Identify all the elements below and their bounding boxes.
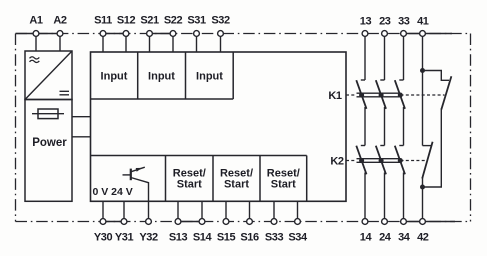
contact K2 no2 tick (380, 145, 384, 147)
svg-text:S13: S13 (169, 232, 188, 244)
wire S16 stem (249, 201, 251, 221)
wire solid top-left corner to A2 (16, 33, 61, 35)
terminal A2 (57, 31, 63, 37)
contact K1 no2 tick (380, 79, 384, 81)
K2 link dot 3 (398, 158, 403, 163)
K1 link dot 2 (379, 92, 384, 97)
terminal S16 (247, 219, 253, 225)
svg-text:Y31: Y31 (115, 232, 134, 244)
terminal 14 (362, 219, 368, 225)
transistor collector to Y32 (131, 178, 149, 222)
enclosure dash-dot border bottom (16, 221, 471, 223)
contact K1 no3 tick (399, 79, 403, 81)
terminal Y30 (100, 219, 106, 225)
terminal S22 (170, 31, 176, 37)
svg-text:Input: Input (196, 71, 223, 83)
svg-text:33: 33 (398, 15, 410, 27)
terminal S32 (218, 31, 224, 37)
power bus rung 2 (72, 136, 91, 138)
contact K2 no2 blade (376, 146, 386, 175)
wire S13 stem (177, 201, 179, 221)
terminal 42 (420, 219, 426, 225)
svg-text:24: 24 (379, 232, 392, 244)
svg-text:13: 13 (360, 15, 372, 27)
main logic box (91, 52, 347, 201)
terminal 33 (401, 31, 407, 37)
converter diagonal (25, 51, 72, 100)
svg-text:Start: Start (271, 178, 296, 190)
transistor emitter with arrow (131, 167, 145, 172)
converter DC symbol (60, 91, 70, 95)
contact K2 no1 blade (356, 146, 366, 175)
contact K1 no2 wire 23 (384, 34, 386, 81)
terminal S34 (295, 219, 301, 225)
wire Y30 stem (102, 201, 104, 221)
svg-text:0 V 24 V: 0 V 24 V (93, 186, 133, 198)
enclosure dash-dot border left (15, 34, 17, 222)
wire S22 stem (172, 34, 174, 53)
terminal 41 (420, 31, 426, 37)
terminal A1 (33, 31, 39, 37)
contact K1 no2 blade (376, 80, 386, 109)
K1 link bar (357, 93, 401, 97)
terminal S31 (194, 31, 200, 37)
svg-text:S32: S32 (211, 14, 230, 26)
wire S14 stem (201, 201, 203, 221)
wire Y31 stem (123, 201, 125, 221)
terminal S33 (271, 219, 277, 225)
terminal 23 (382, 31, 388, 37)
node junction 42 (420, 185, 425, 190)
wire solid 34-42 bottom (404, 221, 456, 223)
bottom block dividers (166, 156, 307, 202)
K1 dashed mechanical link (346, 94, 445, 96)
wire 41 stem (422, 34, 424, 71)
svg-text:S33: S33 (265, 232, 284, 244)
wire solid S13-S14 (178, 221, 202, 223)
contact K2 nc blade (422, 142, 432, 179)
terminal S13 (175, 219, 181, 225)
wire S12 stem (125, 34, 127, 53)
K1 link dot 3 (398, 92, 403, 97)
terminal S11 (100, 31, 106, 37)
wire solid S11-S12 (103, 33, 126, 35)
transistor base lead (123, 174, 131, 176)
svg-text:34: 34 (398, 232, 411, 244)
contact K2 no1 lower wire to 14 (364, 173, 366, 222)
terminal S14 (199, 219, 205, 225)
wire A1 stem (35, 34, 37, 52)
terminal 13 (362, 31, 368, 37)
terminal 34 (401, 219, 407, 225)
svg-text:A1: A1 (29, 14, 43, 26)
wire K1 nc down run (423, 109, 442, 188)
wire S31 stem (196, 34, 198, 53)
contact K1 no3 lower wire (403, 107, 405, 146)
wire K2 nc to node (422, 177, 424, 222)
contact K2 no3 tick (399, 145, 403, 147)
svg-text:Y30: Y30 (94, 232, 113, 244)
wire S32 stem (220, 34, 222, 53)
svg-text:S14: S14 (193, 232, 213, 244)
svg-text:Y32: Y32 (139, 232, 158, 244)
svg-text:41: 41 (417, 15, 429, 27)
contact K1 no2 lower wire (384, 107, 386, 146)
contact K2 no3 lower wire to 34 (403, 173, 405, 222)
wire S34 stem (297, 201, 299, 221)
converter AC symbol (30, 57, 40, 59)
svg-text:Input: Input (101, 71, 128, 83)
svg-text:K2: K2 (330, 155, 344, 167)
enclosure dash-dot border top (16, 33, 471, 35)
wire K2 nc left run (422, 71, 424, 146)
contact K2 no2 lower wire to 24 (384, 173, 386, 222)
fuse F (38, 109, 58, 119)
svg-text:S31: S31 (187, 14, 206, 26)
svg-text:Start: Start (177, 178, 202, 190)
transistor emitter arrowhead (136, 168, 142, 172)
wire solid S21-S22 (150, 33, 174, 35)
contact K2 nc hook (423, 145, 432, 147)
svg-text:23: 23 (379, 15, 391, 27)
K2 link dot 2 (379, 158, 384, 163)
svg-text:S12: S12 (117, 14, 136, 26)
terminal 24 (382, 219, 388, 225)
wire S33 stem (273, 201, 275, 221)
svg-text:Power: Power (32, 137, 67, 149)
input block dividers (91, 52, 234, 99)
contact K1 no1 tick (361, 79, 365, 81)
contact K2 no3 blade (395, 146, 405, 175)
terminal Y32 (146, 219, 152, 225)
svg-text:S16: S16 (240, 232, 259, 244)
contact K1 no1 lower wire (364, 107, 366, 146)
contact K1 nc blade (441, 76, 451, 109)
svg-text:K1: K1 (328, 90, 342, 102)
terminal S21 (147, 31, 153, 37)
svg-text:S22: S22 (164, 14, 183, 26)
contact K2 no1 tick (361, 145, 365, 147)
svg-text:A2: A2 (53, 14, 67, 26)
wire solid 33 to right of 41 (404, 33, 453, 35)
svg-text:42: 42 (417, 232, 429, 244)
contact K1 no3 blade (395, 80, 405, 109)
svg-text:Input: Input (148, 71, 175, 83)
svg-text:S15: S15 (217, 232, 236, 244)
terminal S15 (223, 219, 229, 225)
wire A2 stem (59, 34, 61, 52)
wire S15 stem (225, 201, 227, 221)
svg-text:S34: S34 (288, 232, 308, 244)
enclosure dash-dot border right (470, 34, 472, 222)
terminal Y31 (121, 219, 127, 225)
power lower box (25, 100, 72, 202)
wire solid Y30-Y31 (103, 221, 124, 223)
svg-text:14: 14 (360, 232, 373, 244)
svg-text:S21: S21 (140, 14, 159, 26)
K2 dashed mechanical link (346, 160, 427, 162)
power supply converter box (25, 51, 72, 100)
contact K1 no1 blade (356, 80, 366, 109)
terminal S12 (123, 31, 129, 37)
contact K1 no1 wire 13 (364, 34, 366, 81)
bottom blocks top edge (91, 155, 307, 157)
node junction 41 (420, 68, 425, 73)
svg-text:S11: S11 (94, 14, 112, 26)
wire jog 41 to K1 nc (423, 71, 450, 81)
wire S21 stem (149, 34, 151, 53)
K2 link dot 1 (359, 158, 364, 163)
contact K1 no3 wire 33 (403, 34, 405, 81)
K1 link dot 1 (359, 92, 364, 97)
power bus rung 1 (72, 116, 91, 118)
wire S11 stem (102, 34, 104, 53)
K2 link bar (357, 159, 401, 163)
transistor base bar (130, 169, 132, 181)
svg-text:Start: Start (224, 178, 249, 190)
